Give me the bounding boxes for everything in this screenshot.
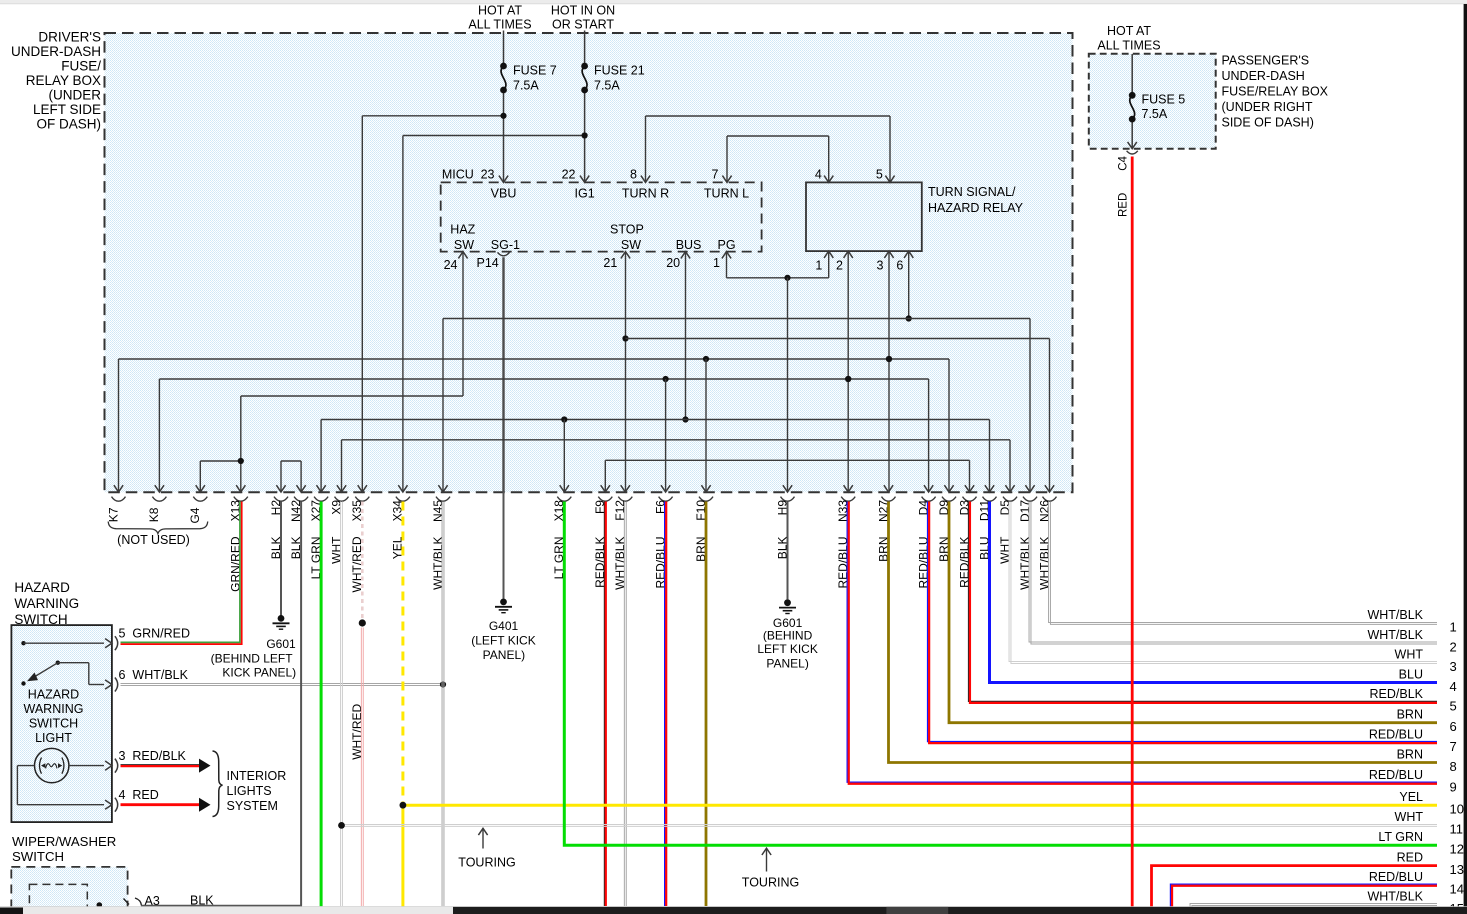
bottom scrollbar left button xyxy=(0,908,23,914)
svg-text:6: 6 xyxy=(896,259,903,273)
wire RED from C4 xyxy=(1131,157,1134,907)
svg-text:4: 4 xyxy=(1450,679,1457,694)
svg-text:(UNDER RIGHT: (UNDER RIGHT xyxy=(1222,100,1313,114)
svg-text:WHT/BLK: WHT/BLK xyxy=(1367,628,1423,642)
svg-text:7: 7 xyxy=(1450,739,1457,754)
svg-text:D17: D17 xyxy=(1018,500,1032,522)
svg-text:5: 5 xyxy=(119,627,126,641)
svg-text:IG1: IG1 xyxy=(575,187,595,201)
wire D5 down to line 3 xyxy=(1009,502,1437,662)
wire N42 BLK down to A3 xyxy=(300,502,302,906)
svg-text:WHT/BLK: WHT/BLK xyxy=(1367,608,1423,622)
svg-text:FUSE 5: FUSE 5 xyxy=(1142,93,1186,107)
pin F9 arrow+connector+label xyxy=(601,485,610,492)
svg-text:(NOT USED): (NOT USED) xyxy=(117,533,190,547)
svg-text:8: 8 xyxy=(1450,759,1457,774)
svg-text:TURN L: TURN L xyxy=(704,187,749,201)
svg-text:G4: G4 xyxy=(188,507,202,523)
svg-text:HAZ: HAZ xyxy=(450,223,475,237)
wire F12 WHT/BLK down xyxy=(623,502,625,907)
arrow to interior lights (4) xyxy=(199,798,211,812)
wire X9 to D5 xyxy=(341,440,343,492)
svg-text:D5: D5 xyxy=(998,500,1012,516)
wire PG to relay pin1 xyxy=(726,252,728,278)
wire fuse5 feed xyxy=(1131,54,1133,95)
wire fuse21 branch to X34 xyxy=(403,135,585,137)
svg-text:6: 6 xyxy=(119,668,126,682)
svg-text:3: 3 xyxy=(1450,659,1457,674)
wiper switch connector ticks xyxy=(124,899,130,905)
bottom scrollbar track xyxy=(0,907,1467,914)
svg-text:BRN: BRN xyxy=(1397,708,1423,722)
svg-text:7.5A: 7.5A xyxy=(594,79,620,93)
wire X13 GRN/RED xyxy=(121,502,240,643)
svg-text:G401: G401 xyxy=(489,619,519,633)
wire SG-1 down (in box) xyxy=(502,257,504,492)
svg-text:TURN SIGNAL/: TURN SIGNAL/ xyxy=(928,185,1016,199)
svg-text:N26: N26 xyxy=(1037,500,1051,522)
svg-text:7.5A: 7.5A xyxy=(513,79,539,93)
fuse FUSE 21 7.5A xyxy=(581,63,588,70)
svg-text:7.5A: 7.5A xyxy=(1142,107,1168,121)
wire X27 to D11 xyxy=(320,420,322,493)
svg-text:12: 12 xyxy=(1450,842,1464,857)
pin F10 arrow+connector+label xyxy=(701,485,710,492)
svg-text:RED: RED xyxy=(132,788,158,802)
wire BUS 20 tap xyxy=(685,252,687,420)
svg-text:WARNING: WARNING xyxy=(24,702,84,716)
wire N45 to D17 xyxy=(442,319,444,493)
svg-text:BLU: BLU xyxy=(1399,667,1423,681)
wire 10 YEL from X34 xyxy=(403,804,1437,807)
svg-text:4: 4 xyxy=(119,788,126,802)
hazard pin 3 RED/BLK xyxy=(105,761,112,770)
wire H9 drop xyxy=(784,275,790,281)
svg-text:5: 5 xyxy=(876,168,883,182)
hazard pin 5 GRN/RED xyxy=(105,639,112,648)
svg-text:BRN: BRN xyxy=(1397,747,1423,761)
svg-text:2: 2 xyxy=(1450,639,1457,654)
svg-text:SW: SW xyxy=(621,238,641,252)
svg-text:INTERIOR: INTERIOR xyxy=(227,769,287,783)
bracket (NOT USED) xyxy=(108,522,208,534)
svg-text:WIPER/WASHER: WIPER/WASHER xyxy=(12,834,116,849)
svg-text:(BEHIND: (BEHIND xyxy=(763,629,813,643)
svg-text:ALL TIMES: ALL TIMES xyxy=(468,18,531,32)
svg-text:HOT IN ON: HOT IN ON xyxy=(551,4,615,18)
svg-text:UNDER-DASH: UNDER-DASH xyxy=(1222,69,1305,83)
wire 11 WHT from X9 xyxy=(340,502,342,907)
pin N33 arrow+connector+label xyxy=(844,485,853,492)
svg-text:14: 14 xyxy=(1450,882,1464,897)
svg-text:23: 23 xyxy=(481,168,495,182)
pin N42 arrow+connector+label xyxy=(297,485,306,492)
svg-text:2: 2 xyxy=(836,259,843,273)
svg-text:LIGHTS: LIGHTS xyxy=(227,784,272,798)
svg-text:3: 3 xyxy=(119,749,126,763)
svg-text:VBU: VBU xyxy=(491,187,517,201)
svg-text:WHT: WHT xyxy=(998,536,1012,564)
wire X35 WHT/RED lower xyxy=(360,628,362,907)
wire X34 YEL dashed xyxy=(401,502,404,806)
label TOURING (lt grn wire) xyxy=(762,848,771,855)
arrow to interior lights (3) xyxy=(199,759,211,773)
wire N26 down to line 1 xyxy=(1049,502,1437,623)
wire X34 YEL solid lower xyxy=(401,805,404,906)
wire SG-1 BLK to ground xyxy=(503,492,505,599)
wire H2 BLK to ground xyxy=(280,502,282,619)
svg-text:1: 1 xyxy=(713,256,720,270)
svg-text:1: 1 xyxy=(815,259,822,273)
wire X27 LT GRN down xyxy=(320,502,323,907)
hazard switch contacts xyxy=(21,641,25,645)
svg-text:SIDE OF DASH): SIDE OF DASH) xyxy=(1222,116,1314,130)
svg-text:RED/BLU: RED/BLU xyxy=(1369,768,1423,782)
svg-text:WHT/BLK: WHT/BLK xyxy=(431,537,445,590)
svg-text:LIGHT: LIGHT xyxy=(35,731,72,745)
svg-text:(BEHIND LEFT: (BEHIND LEFT xyxy=(211,651,294,665)
svg-text:STOP: STOP xyxy=(610,223,644,237)
wire 14 RED/BLU from bottom xyxy=(1171,884,1438,907)
wire K8 to D4 xyxy=(158,379,160,492)
svg-text:8: 8 xyxy=(630,168,637,182)
pin G4 arrow+connector+label xyxy=(196,485,205,492)
svg-text:WHT: WHT xyxy=(1395,647,1424,661)
svg-text:RED/BLK: RED/BLK xyxy=(132,749,186,763)
svg-text:SG-1: SG-1 xyxy=(491,238,520,252)
svg-text:RED: RED xyxy=(1118,193,1130,217)
svg-text:X9: X9 xyxy=(329,500,343,515)
wire F6 drop xyxy=(665,379,667,492)
ground G601 (H2) xyxy=(278,615,285,622)
wire D17 down to line 2 xyxy=(1029,502,1437,643)
wire F9 to D3 xyxy=(604,460,606,492)
hazard pin 6 WHT/BLK xyxy=(105,680,112,689)
svg-text:(LEFT KICK: (LEFT KICK xyxy=(471,634,535,648)
svg-text:G601: G601 xyxy=(266,637,296,651)
hazard warning switch light (bulb) xyxy=(35,748,69,782)
svg-text:UNDER-DASH: UNDER-DASH xyxy=(11,44,101,59)
svg-text:SYSTEM: SYSTEM xyxy=(227,799,278,813)
svg-text:PANEL): PANEL) xyxy=(483,648,525,662)
wire G4 tap xyxy=(199,461,201,492)
svg-text:20: 20 xyxy=(666,256,680,270)
pin K8 arrow+connector+label xyxy=(155,485,164,492)
svg-text:WHT/BLK: WHT/BLK xyxy=(613,537,627,590)
svg-text:K7: K7 xyxy=(106,507,120,522)
pin X9 arrow+connector+label xyxy=(337,485,346,492)
relay pin 2 xyxy=(844,251,853,258)
svg-text:WHT/BLK: WHT/BLK xyxy=(1018,537,1032,590)
splice X35 xyxy=(359,619,366,626)
pin N26 arrow+connector+label xyxy=(1045,485,1054,492)
MICU box (dashed) xyxy=(441,182,762,251)
svg-text:HAZARD RELAY: HAZARD RELAY xyxy=(928,201,1024,215)
relay pin 1 xyxy=(824,251,833,258)
svg-text:(UNDER: (UNDER xyxy=(49,88,102,103)
junction fuse7 xyxy=(500,113,506,119)
svg-text:OR START: OR START xyxy=(552,18,614,32)
pin K7 arrow+connector+label xyxy=(114,485,123,492)
svg-text:K8: K8 xyxy=(147,507,161,522)
ground G401 xyxy=(500,599,507,606)
pin D4 arrow+connector+label xyxy=(924,485,933,492)
wire D4 down to line 7 xyxy=(928,502,1437,742)
wire D11 down to line 4 xyxy=(990,502,1438,683)
svg-text:11: 11 xyxy=(1450,822,1464,837)
pin C4 passenger fuse box xyxy=(1128,142,1137,149)
svg-text:P14: P14 xyxy=(477,256,499,270)
turn signal/hazard relay box xyxy=(806,182,922,251)
pin D17 arrow+connector+label xyxy=(1025,485,1034,492)
pin X35 arrow+connector+label xyxy=(358,485,367,492)
hazard pin 4 RED xyxy=(105,800,112,809)
wire TURN L to relay pin4 xyxy=(726,136,728,182)
pin X34 arrow+connector+label xyxy=(398,485,407,492)
pin D9 arrow+connector+label xyxy=(944,485,953,492)
pin H9 arrow+connector+label xyxy=(783,485,792,492)
wiper/washer switch inner box (dashed) xyxy=(29,884,87,914)
svg-text:13: 13 xyxy=(1450,862,1464,877)
bottom scrollbar dark region xyxy=(453,907,1467,914)
svg-text:6: 6 xyxy=(1450,719,1457,734)
hazard warning switch box xyxy=(11,625,112,822)
svg-text:HOT AT: HOT AT xyxy=(1107,24,1151,38)
svg-text:TOURING: TOURING xyxy=(458,856,515,870)
svg-text:FUSE/RELAY BOX: FUSE/RELAY BOX xyxy=(1222,85,1329,99)
svg-text:7: 7 xyxy=(712,168,719,182)
svg-text:RED/BLK: RED/BLK xyxy=(1370,687,1424,701)
wire H2-N42 jumper xyxy=(280,461,282,492)
ground G601 (H9) xyxy=(784,599,791,606)
svg-text:9: 9 xyxy=(1450,780,1457,795)
wire N33 down to line 9 xyxy=(847,502,1437,783)
wiper switch inner dot xyxy=(97,902,103,908)
svg-text:TURN R: TURN R xyxy=(622,187,669,201)
svg-text:KICK PANEL): KICK PANEL) xyxy=(222,665,296,679)
wire N27 down to line 8 xyxy=(889,502,1438,763)
svg-text:FUSE 7: FUSE 7 xyxy=(513,64,557,78)
wire F10 drop xyxy=(705,359,707,492)
svg-text:DRIVER'S: DRIVER'S xyxy=(38,30,101,45)
wire hazard 3 RED/BLK xyxy=(121,764,201,766)
svg-text:1: 1 xyxy=(1450,620,1457,635)
svg-text:10: 10 xyxy=(1450,802,1464,817)
svg-text:SWITCH: SWITCH xyxy=(14,612,67,627)
svg-text:MICU: MICU xyxy=(442,168,474,182)
svg-text:24: 24 xyxy=(444,258,458,272)
wire STOP SW 21 to F12 and N26 xyxy=(625,252,627,492)
svg-text:HOT AT: HOT AT xyxy=(478,4,522,18)
svg-text:RED/BLU: RED/BLU xyxy=(1369,727,1423,741)
svg-text:LEFT SIDE: LEFT SIDE xyxy=(33,102,101,117)
wire X18 drop xyxy=(563,420,565,493)
pin N45 arrow+connector+label xyxy=(438,485,447,492)
svg-text:HAZARD: HAZARD xyxy=(14,580,70,595)
svg-text:ALL TIMES: ALL TIMES xyxy=(1097,39,1160,53)
svg-text:TOURING: TOURING xyxy=(742,876,799,890)
wire X35 WHT/RED upper(dashed) xyxy=(361,502,364,619)
svg-text:22: 22 xyxy=(562,168,576,182)
relay pin 6 xyxy=(904,251,913,258)
wire F6 RED/BLU down xyxy=(664,502,666,907)
passenger's under-dash fuse/relay box (blue dashed) xyxy=(1089,54,1216,149)
wire D3 down to line 5 xyxy=(969,502,1438,702)
svg-text:WHT/BLK: WHT/BLK xyxy=(132,668,188,682)
svg-text:SW: SW xyxy=(454,238,474,252)
wire A3 BLK xyxy=(141,905,302,907)
svg-text:FUSE 21: FUSE 21 xyxy=(594,64,645,78)
wire relay pin2 to N33 xyxy=(847,251,849,492)
svg-text:LEFT KICK: LEFT KICK xyxy=(757,642,817,656)
wiper/washer switch box (dashed) xyxy=(11,867,127,914)
svg-text:WHT/RED: WHT/RED xyxy=(350,703,364,759)
svg-text:5: 5 xyxy=(1450,699,1457,714)
wire D9 down to line 6 xyxy=(949,502,1437,723)
pin F6 arrow+connector+label xyxy=(661,485,670,492)
svg-text:SWITCH: SWITCH xyxy=(29,717,78,731)
svg-text:WHT/BLK: WHT/BLK xyxy=(1037,537,1051,590)
wire fuse7 feed xyxy=(503,31,505,67)
wire relay pin6 tap xyxy=(908,251,910,318)
svg-text:GRN/RED: GRN/RED xyxy=(132,627,190,641)
wire N45 WHT/BLK down xyxy=(441,502,443,907)
junction fuse21 xyxy=(582,132,588,138)
top grey strip xyxy=(0,0,1467,4)
svg-text:OF DASH): OF DASH) xyxy=(36,117,101,132)
wire F9 RED/BLK down xyxy=(603,502,605,907)
svg-text:HAZARD: HAZARD xyxy=(28,688,79,702)
svg-text:BUS: BUS xyxy=(676,238,702,252)
pin X27 arrow+connector+label xyxy=(317,485,326,492)
wire TURN R to relay pin5 xyxy=(645,116,647,182)
relay pin 3 xyxy=(884,251,893,258)
svg-text:4: 4 xyxy=(815,168,822,182)
svg-text:PG: PG xyxy=(718,238,736,252)
label TOURING (wht wire) xyxy=(478,828,487,835)
wire hazard 4 RED xyxy=(121,803,201,806)
fuse FUSE 7 7.5A xyxy=(500,63,507,70)
wire 12 LT GRN from X18 xyxy=(564,502,1437,846)
driver's under-dash fuse/relay box (blue dashed) xyxy=(105,33,1073,492)
wire fuse7 branch to X35 xyxy=(362,115,503,117)
svg-text:FUSE/: FUSE/ xyxy=(61,59,101,74)
svg-text:C4: C4 xyxy=(1118,155,1130,170)
wire 15 WHT/BLK from bottom xyxy=(1190,904,1437,907)
svg-text:F12: F12 xyxy=(613,500,627,521)
wire K7 to D9 xyxy=(118,359,120,492)
wire H9 BLK to ground xyxy=(787,502,789,600)
svg-text:SWITCH: SWITCH xyxy=(12,849,64,864)
pin X13 arrow+connector+label xyxy=(236,485,245,492)
pin D11 arrow+connector+label xyxy=(985,485,994,492)
svg-text:WHT/BLK: WHT/BLK xyxy=(1367,889,1423,903)
svg-text:PANEL): PANEL) xyxy=(766,656,808,670)
svg-text:21: 21 xyxy=(603,256,617,270)
svg-text:RELAY BOX: RELAY BOX xyxy=(26,73,101,88)
svg-text:3: 3 xyxy=(877,259,884,273)
bottom scrollbar thumb xyxy=(886,907,948,914)
svg-text:LT GRN: LT GRN xyxy=(1378,830,1423,844)
svg-text:WARNING: WARNING xyxy=(14,596,79,611)
wire HAZ SW 24 to X13 xyxy=(462,252,464,396)
wire 13 RED from bottom xyxy=(1152,866,1438,907)
right edge scrollbar bar xyxy=(1464,4,1467,914)
pin H2 arrow+connector+label xyxy=(276,485,285,492)
svg-text:PASSENGER'S: PASSENGER'S xyxy=(1222,54,1310,68)
svg-text:YEL: YEL xyxy=(1399,790,1423,804)
pin D3 arrow+connector+label xyxy=(965,485,974,492)
svg-text:WHT: WHT xyxy=(329,536,343,564)
svg-text:RED/BLU: RED/BLU xyxy=(1369,870,1423,884)
wire fuse21 feed xyxy=(584,31,586,67)
pin D5 arrow+connector+label xyxy=(1005,485,1014,492)
wire F10 BRN down xyxy=(705,502,708,907)
svg-text:N45: N45 xyxy=(431,500,445,522)
wire relay pin3 to N27 xyxy=(888,251,890,492)
fuse FUSE 5 7.5A xyxy=(1129,92,1136,99)
pin N27 arrow+connector+label xyxy=(884,485,893,492)
pin F12 arrow+connector+label xyxy=(621,485,630,492)
brace interior lights xyxy=(213,751,223,817)
wire pin6 WHT/BLK to N45 (horizontal) xyxy=(121,683,444,685)
svg-text:WHT: WHT xyxy=(1395,810,1424,824)
svg-text:RED: RED xyxy=(1397,850,1423,864)
pin X18 arrow+connector+label xyxy=(560,485,569,492)
